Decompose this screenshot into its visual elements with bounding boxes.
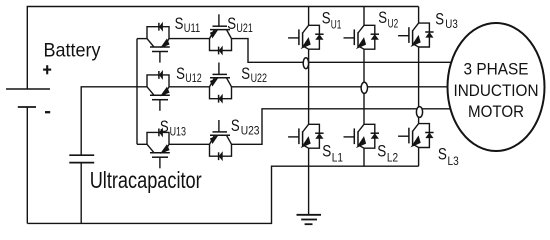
svg-text:U12: U12: [185, 73, 201, 85]
svg-text:U22: U22: [251, 73, 267, 85]
wire top bus from battery + to inverter legs: [27, 7, 418, 90]
wire converter left rail: [136, 39, 138, 145]
transistor SU11: [147, 23, 170, 63]
svg-text:U13: U13: [170, 127, 186, 139]
transistor SU22: [210, 63, 232, 103]
wire row3 left stub: [137, 143, 147, 145]
svg-text:S: S: [322, 9, 331, 28]
wire ultracapacitor to bottom bus: [80, 163, 82, 224]
svg-text:S: S: [241, 64, 250, 83]
wire leg1 upper: [308, 7, 310, 26]
svg-text:MOTOR: MOTOR: [468, 102, 524, 121]
wire leg2 middle: [363, 49, 365, 124]
transistor SU21: [210, 14, 232, 54]
svg-text:S: S: [160, 117, 169, 136]
svg-text:S: S: [322, 142, 331, 161]
svg-text:U23: U23: [241, 126, 260, 138]
svg-text:L3: L3: [448, 156, 459, 168]
wire leg2 upper: [363, 7, 365, 26]
svg-text:Battery: Battery: [44, 39, 101, 61]
wire leg3 lower: [418, 148, 420, 167]
wire row1 middle: [169, 38, 210, 40]
transistor SL1: [288, 124, 324, 148]
wire leg1 middle: [308, 49, 310, 124]
svg-text:S: S: [377, 142, 386, 161]
wire row3 right to phase C: [232, 109, 451, 145]
transistor SU2: [344, 25, 380, 49]
svg-text:S: S: [378, 8, 387, 27]
svg-text:L2: L2: [387, 153, 398, 165]
transistor SL3: [398, 124, 434, 148]
transistor SU1: [288, 25, 324, 49]
transistor SU12: [147, 71, 170, 111]
svg-text:S: S: [438, 145, 447, 164]
motor M1 ellipse: [448, 23, 545, 151]
wire battery negative down: [26, 107, 28, 223]
svg-text:U3: U3: [445, 19, 458, 31]
svg-text:U21: U21: [236, 23, 252, 35]
wire row3 middle: [169, 143, 210, 145]
node phase A: [303, 58, 308, 69]
node phase C: [416, 107, 422, 118]
transistor SL2: [344, 124, 380, 148]
svg-text:3 PHASE: 3 PHASE: [464, 60, 529, 79]
battery B1: [6, 89, 50, 107]
wire row1 left stub: [137, 38, 147, 40]
capacitor ultracapacitor: [69, 155, 94, 162]
wire leg1 lower: [308, 148, 310, 167]
svg-text:L1: L1: [332, 153, 343, 165]
svg-text:Ultracapacitor: Ultracapacitor: [90, 167, 202, 193]
transistor SU3: [398, 23, 434, 47]
wire ground stem: [308, 166, 310, 215]
wire bottom bus: [27, 166, 418, 223]
svg-text:U2: U2: [388, 19, 399, 31]
wire leg3 upper: [418, 7, 420, 24]
svg-text:INDUCTION: INDUCTION: [454, 81, 539, 100]
wire ultracapacitor rail: [81, 87, 147, 155]
svg-text:S: S: [176, 64, 185, 83]
svg-text:S: S: [231, 116, 240, 135]
wire leg3 middle: [418, 47, 420, 124]
svg-text:U11: U11: [184, 23, 200, 35]
svg-text:U1: U1: [331, 19, 342, 31]
svg-text:S: S: [435, 9, 444, 28]
label motor text: [454, 60, 539, 121]
label battery minus: [45, 111, 50, 113]
wire leg2 lower: [363, 148, 365, 167]
svg-text:S: S: [227, 14, 236, 33]
svg-text:S: S: [175, 14, 184, 33]
node phase B: [361, 82, 367, 93]
wire row2 middle: [169, 86, 210, 88]
transistor SU23: [210, 120, 232, 160]
wire row1 right to phase A: [232, 39, 452, 63]
wire row2 right / phase B: [232, 86, 448, 88]
transistor SU13: [147, 129, 170, 169]
ground: [297, 215, 322, 224]
label battery plus: [43, 65, 51, 74]
